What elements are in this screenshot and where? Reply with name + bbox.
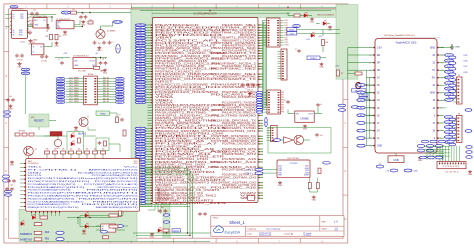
svg-text:ENC_A2: ENC_A2	[103, 82, 109, 85]
svg-text:TML1: TML1	[28, 167, 44, 169]
svg-text:Sheet:: Sheet:	[322, 227, 328, 230]
GND at bottom of NodeMCU mesh	[418, 156, 422, 159]
svg-text:PB6/USART1_TX/CAN2: PB6/USART1_TX/CAN2	[222, 39, 257, 42]
net oval OSC_IN	[113, 21, 123, 24]
svg-text:A: A	[5, 27, 7, 30]
net ovals lower right cluster	[466, 146, 472, 159]
IC U6 right column pin names	[76, 167, 140, 210]
LED D10 mid bottom strip	[85, 223, 89, 228]
svg-text:PD14/FSMC_D0/TIM4_CH3: PD14/FSMC_D0/TIM4_CH3	[211, 177, 257, 179]
ground below capacitors	[17, 62, 21, 65]
svg-text:PF4: PF4	[281, 102, 284, 104]
wire +5V rail top	[131, 6, 336, 8]
svg-text:IO15: IO15	[447, 100, 451, 102]
junction dots rail	[47, 24, 48, 25]
net name labels on header J2 wires	[285, 20, 289, 46]
svg-text:GND: GND	[310, 22, 315, 24]
svg-text:B2: B2	[113, 229, 115, 231]
wire into LP2985	[287, 110, 289, 114]
svg-text:GND: GND	[328, 30, 333, 32]
svg-text:C: C	[5, 122, 7, 125]
wires U6 right to bottom bus	[140, 198, 190, 207]
svg-text:Reset(PC6)(PCINT14): Reset(PC6)(PCINT14)	[81, 177, 139, 180]
ferrite bead FB1 outside frame	[356, 82, 361, 88]
resistor R2 vertical	[50, 34, 53, 40]
svg-text:RC4(PCINT18/AIN5C): RC4(PCINT18/AIN5C)	[28, 177, 82, 180]
opto isolator U7 body	[101, 224, 116, 232]
resistor R25 right of U10	[318, 168, 321, 174]
frame column ticks bottom	[25, 238, 323, 243]
wires fanning from U5 right to headers	[444, 63, 447, 108]
IC U1B inner text	[34, 19, 46, 27]
wires from U3 bottom to bottom bus	[148, 203, 161, 215]
IC U10 left pin text	[278, 166, 283, 177]
svg-text:ENC_A8: ENC_A8	[103, 97, 109, 100]
svg-text:GND: GND	[82, 234, 87, 236]
svg-text:PD2(R3/AN5C)(INT2): PD2(R3/AN5C)(INT2)	[28, 186, 86, 189]
svg-text:PB4(MISO)(PCINT4): PB4(MISO)(PCINT4)	[79, 198, 139, 200]
svg-text:PG4: PG4	[285, 30, 288, 32]
ground below R23	[312, 196, 316, 199]
svg-text:ENC_A7: ENC_A7	[103, 95, 109, 98]
IC U2 inner text	[33, 47, 44, 54]
net ovals left of U5 lower	[357, 122, 365, 148]
net label box PWM below XP0H	[96, 111, 110, 115]
svg-text:MOT_PWM3: MOT_PWM3	[69, 85, 78, 87]
svg-text:PD6/USART2_RX/FSMC: PD6/USART2_RX/FSMC	[222, 76, 256, 79]
svg-text:PD6(OC0A/AN2)(PCINT6): PD6(OC0A/AN2)(PCINT6)	[28, 197, 76, 200]
net oval top left of U1	[10, 6, 18, 9]
IC U1 CH340G body	[12, 10, 28, 38]
inductor L1	[94, 66, 100, 69]
svg-text:SW1: SW1	[31, 117, 35, 119]
wire bus between U3 and headers	[263, 20, 267, 112]
net ovals above header P4	[420, 156, 443, 159]
svg-text:4R7 4R7: 4R7 4R7	[19, 131, 26, 133]
svg-text:PA9/USART1_TX/TIM1: PA9/USART1_TX/TIM1	[222, 127, 257, 130]
svg-text:C?: C?	[284, 100, 286, 102]
svg-text:PC2/ADC123_IN12/SPI2: PC2/ADC123_IN12/SPI2	[155, 88, 206, 91]
svg-text:S0: S0	[360, 85, 362, 87]
svg-text:GND: GND	[312, 200, 317, 202]
svg-text:PB4(T1/SCK)(PCINT5): PB4(T1/SCK)(PCINT5)	[90, 196, 139, 198]
LED D5 bottom-left	[21, 220, 25, 225]
svg-text:IC?: IC?	[243, 198, 246, 200]
caps between U1B and U2	[26, 31, 32, 35]
svg-text:LED1 LED-5MM_R: LED1 LED-5MM_R	[317, 15, 335, 17]
diode bridge green box	[67, 132, 84, 154]
svg-text:PB4(PUR)(INT0): PB4(PUR)(INT0)	[87, 190, 139, 192]
net ovals right of U5 second column	[449, 56, 456, 98]
net ovals far right of P2	[465, 109, 472, 133]
svg-text:3: 3	[109, 6, 111, 9]
svg-text:+5V: +5V	[335, 66, 339, 68]
svg-text:PF13/FSMC_A7: PF13/FSMC_A7	[155, 143, 220, 146]
svg-text:MOT_PWM6: MOT_PWM6	[69, 93, 78, 95]
svg-text:SN: SN	[377, 70, 381, 72]
svg-text:104: 104	[9, 96, 12, 98]
svg-text:GND: GND	[430, 93, 435, 95]
frame row ticks right	[343, 27, 348, 221]
net oval PWR	[293, 25, 301, 28]
svg-text:GND: GND	[8, 109, 13, 111]
wire stub texts top-left U1	[30, 16, 46, 27]
svg-text:10K: 10K	[86, 148, 89, 150]
svg-text:PG8: PG8	[285, 40, 288, 42]
svg-text:PA13/JTMS-SWDIO: PA13/JTMS-SWDIO	[211, 114, 256, 117]
svg-text:SUSP: SUSP	[304, 175, 310, 177]
svg-text:PC11/UART4_RX/SDIO: PC11/UART4_RX/SDIO	[211, 104, 256, 107]
IC U1 inner pin text bottom	[13, 30, 24, 37]
svg-text:9T-CH(TML1): 9T-CH(TML1)	[28, 169, 78, 171]
svg-text:C7: C7	[58, 59, 60, 61]
svg-text:ENC_A3: ENC_A3	[103, 84, 109, 87]
svg-text:MOT_PWM4: MOT_PWM4	[69, 88, 78, 90]
svg-text:PG6: PG6	[285, 35, 288, 37]
net ovals right of U5 lower group	[444, 116, 452, 144]
bottom center cluster diode	[158, 227, 162, 232]
svg-text:S4: S4	[360, 115, 362, 117]
svg-text:AREF/ADC6(PCINT22): AREF/ADC6(PCINT22)	[89, 168, 139, 171]
ground below USB connector	[63, 31, 67, 34]
svg-text:0 1 2 3 4 5 6 7 8 9: 0 1 2 3 4 5 6 7 8 9	[443, 166, 460, 168]
svg-text:GND: GND	[418, 160, 423, 162]
svg-text:PG12/FSMC_NE4: PG12/FSMC_NE4	[211, 58, 258, 60]
svg-text:MIBTX0: MIBTX0	[20, 239, 33, 242]
wires along top green band	[140, 7, 331, 14]
USB connector on U5 bottom	[388, 156, 404, 163]
junction dots bottom bus	[187, 232, 188, 233]
svg-text:PB7/USART1_RX/FSMC: PB7/USART1_RX/FSMC	[211, 37, 257, 40]
svg-text:REV:: REV:	[322, 221, 327, 223]
svg-text:+12V: +12V	[63, 53, 68, 55]
transistor Q1	[24, 146, 34, 156]
svg-text:+5V: +5V	[95, 53, 99, 55]
svg-text:PD5/USART2_TX: PD5/USART2_TX	[211, 78, 257, 81]
svg-text:GND: GND	[455, 47, 460, 49]
ground below R1	[55, 42, 59, 45]
svg-text:Company:: Company:	[247, 228, 257, 230]
svg-text:TXD0: TXD0	[289, 33, 294, 35]
opto isolator U7 pin text	[102, 225, 115, 231]
pin header XP0H 2x10 body	[84, 74, 98, 105]
svg-text:PG4/FSMC_A14: PG4/FSMC_A14	[211, 161, 258, 164]
wires bottom strip	[67, 217, 128, 230]
svg-text:MIBRX0: MIBRX0	[20, 233, 33, 236]
wires left of U1	[5, 14, 10, 16]
svg-text:MOT_PWM2: MOT_PWM2	[69, 83, 78, 85]
svg-text:GND: GND	[248, 96, 253, 98]
title block divider lines	[211, 216, 344, 237]
net label box PAM1	[359, 93, 368, 96]
svg-text:RXD0: RXD0	[289, 29, 294, 31]
svg-text:GND: GND	[468, 174, 473, 176]
svg-text:PC13/RTC_AF1: PC13/RTC_AF1	[155, 39, 222, 42]
svg-text:VBAT: VBAT	[155, 37, 175, 40]
svg-text:BZ1: BZ1	[56, 148, 59, 150]
resistor R26 outside frame	[355, 72, 362, 75]
svg-text:VOUT: VOUT	[90, 61, 96, 63]
capacitor C20 col right	[297, 49, 301, 53]
svg-text:104: 104	[10, 185, 13, 187]
svg-text:PG0: PG0	[285, 20, 288, 22]
IC U6 top-left corner labels	[28, 161, 39, 165]
svg-text:PE3/TRACED0: PE3/TRACED0	[155, 26, 215, 29]
MCU U3 left-side pins with net ovals	[135, 24, 230, 205]
svg-text:104: 104	[33, 10, 36, 12]
svg-text:10K: 10K	[78, 148, 81, 150]
svg-text:S1: S1	[360, 92, 362, 94]
green region right strip outside frame	[336, 5, 358, 80]
net label box PAM2	[359, 97, 368, 100]
svg-text:D+: D+	[13, 18, 15, 20]
svg-text:C: C	[345, 122, 347, 125]
svg-text:PG13/USART6_CTS: PG13/USART6_CTS	[222, 55, 257, 58]
svg-text:INT2: INT2	[134, 163, 138, 165]
svg-text:OSC_IN: OSC_IN	[114, 22, 121, 24]
svg-text:CTRL1: CTRL1	[245, 169, 252, 171]
svg-text:GND: GND	[430, 47, 435, 49]
svg-text:PD10/FSMC_D15: PD10/FSMC_D15	[155, 203, 229, 205]
svg-text:PC10/UART4_TX/SDIO: PC10/UART4_TX/SDIO	[222, 107, 256, 110]
svg-text:PF8: PF8	[281, 112, 284, 114]
LED D6 power	[304, 12, 308, 17]
IC U6 left edge pins	[20, 163, 26, 207]
resistor R20 series	[294, 14, 300, 17]
net oval right of U10	[323, 162, 331, 165]
title block outline	[211, 216, 344, 237]
svg-text:D: D	[5, 170, 7, 173]
svg-text:MOT_PWM5: MOT_PWM5	[69, 90, 78, 92]
LED D7	[323, 20, 327, 25]
svg-text:GND: GND	[103, 73, 108, 75]
net ovals above reset box	[21, 68, 29, 75]
transistor Q2 circle	[294, 135, 304, 145]
svg-text:PC5T(ADC4/SDA)(PCINT12): PC5T(ADC4/SDA)(PCINT12)	[92, 174, 139, 177]
diode D2 D3 in box	[71, 132, 81, 145]
svg-text:PA7/SPI1_MOSI/TIM8: PA7/SPI1_MOSI/TIM8	[155, 122, 201, 125]
svg-text:1: 1	[25, 6, 27, 9]
svg-text:+5V: +5V	[306, 39, 310, 41]
ground below crystal caps	[97, 46, 101, 49]
resistor values beside U6 top resistors	[46, 148, 105, 150]
regulator U8 LP2985 body	[295, 111, 314, 122]
svg-text:PC12/UART5_TX/SDIO: PC12/UART5_TX/SDIO	[222, 101, 256, 104]
svg-text:CTRL2: CTRL2	[245, 173, 252, 175]
net ovals left of U6	[2, 175, 11, 196]
svg-text:VCC GND: VCC GND	[78, 71, 87, 73]
svg-text:GND: GND	[54, 46, 59, 48]
svg-text:GND: GND	[10, 165, 15, 167]
svg-text:S2: S2	[360, 100, 362, 102]
green region left strip	[131, 9, 152, 207]
wires motor driver area	[35, 135, 67, 137]
svg-text:PB10/I2C2_SCL/USART3: PB10/I2C2_SCL/USART3	[155, 179, 227, 182]
svg-text:U1 CH340G: U1 CH340G	[12, 9, 24, 11]
svg-text:ENC_A6: ENC_A6	[103, 92, 109, 95]
svg-text:10K: 10K	[102, 148, 105, 150]
svg-text:PF14/FSMC_A8: PF14/FSMC_A8	[155, 145, 203, 148]
svg-text:TX: TX	[432, 70, 435, 72]
pin header J2 2x12 boot/program	[263, 18, 284, 47]
green region top band	[131, 9, 349, 17]
svg-text:GND: GND	[81, 24, 86, 26]
net label box PRSET	[307, 56, 320, 60]
bottom center blue label	[172, 229, 181, 232]
svg-text:PA15/JTDI/TIM2_CH1: PA15/JTDI/TIM2_CH1	[211, 109, 257, 112]
svg-text:PF7: PF7	[281, 109, 284, 111]
wires below U10	[309, 178, 311, 183]
svg-text:22p: 22p	[98, 43, 101, 45]
net label box SRC05B4	[352, 89, 367, 92]
left-edge cluster ground	[9, 105, 13, 108]
svg-text:10K: 10K	[46, 148, 49, 150]
svg-text:E: E	[345, 218, 347, 221]
svg-text:104: 104	[161, 207, 164, 209]
svg-text:GND: GND	[28, 172, 44, 174]
svg-text:PE2/TRACECK: PE2/TRACECK	[155, 24, 200, 27]
capacitors near green strip bottom	[158, 207, 167, 213]
net oval CMD below left	[404, 169, 412, 172]
svg-text:PF3: PF3	[281, 99, 284, 101]
IC U1 inner pin text top	[13, 14, 25, 20]
net ovals near bottom of green strip	[163, 214, 169, 223]
svg-text:PC6/TIM8_CH1/SDIO_D6: PC6/TIM8_CH1/SDIO_D6	[222, 144, 257, 146]
svg-text:VDDA: VDDA	[155, 101, 174, 104]
svg-text:B+: B+	[44, 20, 46, 22]
net oval PWM labels near J4	[265, 117, 267, 126]
net label boxes RXD0 TXD0	[287, 28, 297, 31]
svg-text:PA11/USB_DM/CAN1_RX: PA11/USB_DM/CAN1_RX	[222, 122, 257, 125]
USB connector J1 pins text	[57, 22, 61, 29]
svg-text:IO27: IO27	[464, 66, 468, 68]
svg-text:GND: GND	[17, 67, 22, 69]
ground below transistor Q3	[74, 126, 78, 129]
svg-text:U10 CP2102: U10 CP2102	[287, 158, 300, 160]
svg-text:104: 104	[26, 31, 29, 33]
resistor R1 vertical	[55, 34, 58, 40]
svg-text:USB5V: USB5V	[11, 7, 17, 9]
extra top-left wires	[74, 20, 83, 27]
svg-text:10u: 10u	[320, 135, 323, 137]
svg-text:PA10/USART1_RX/TIM1: PA10/USART1_RX/TIM1	[211, 125, 257, 128]
svg-text:ENC_A4: ENC_A4	[103, 87, 109, 90]
svg-text:PF12/FSMC_A6: PF12/FSMC_A6	[155, 140, 206, 143]
resistor R27 and cap below XP0H	[116, 115, 124, 123]
net ovals outside frame right	[338, 104, 358, 111]
IC U1B auxiliary box right of U1	[33, 18, 47, 29]
svg-text:PB4T(UR)(INT4): PB4T(UR)(INT4)	[82, 204, 139, 206]
wires and net names left of XP0H	[56, 77, 84, 104]
wires regulator connections	[61, 58, 63, 60]
capacitors left of U6	[7, 179, 16, 187]
svg-text:PC1T(SRT)(A/PCL3-LAC3): PC1T(SRT)(A/PCL3-LAC3)	[84, 183, 139, 186]
svg-text:10K: 10K	[62, 148, 65, 150]
wires from U5 to P4	[427, 150, 444, 160]
net oval VBUS top	[61, 11, 70, 14]
svg-text:PG7/USART6_CK: PG7/USART6_CK	[211, 151, 257, 154]
wire RXD0 TXD0 right	[297, 28, 340, 30]
IC U1 side pins	[10, 14, 29, 33]
svg-text:GND: GND	[33, 39, 38, 41]
svg-text:PE4/TRACED1/SAI1: PE4/TRACED1/SAI1	[155, 29, 227, 32]
capacitors C10 C11 row	[40, 55, 48, 63]
svg-text:R1: R1	[59, 36, 61, 38]
IC U10 right pin text	[304, 166, 310, 177]
wire bus right of U6 down	[140, 168, 193, 238]
svg-text:PD3(OC2B/AN4)(PCINT3): PD3(OC2B/AN4)(PCINT3)	[28, 189, 72, 192]
module U5 right pins	[430, 47, 444, 148]
svg-text:C?104: C?104	[20, 42, 25, 44]
wire comparator	[281, 139, 284, 141]
svg-text:GND: GND	[319, 67, 324, 69]
svg-text:PC1(TC/TXA-AN6M4A)(NCT5/AD7): PC1(TC/TXA-AN6M4A)(NCT5/AD7)	[28, 200, 85, 203]
wire to bottom IC	[28, 156, 30, 159]
svg-text:MOT_PWM7: MOT_PWM7	[69, 96, 78, 98]
small IC X2 left of U10	[248, 196, 255, 201]
pin header P2 1x8 right	[454, 75, 463, 104]
ground mid bottom strip	[82, 230, 86, 233]
comparator U9 triangle	[284, 137, 294, 143]
small resistor pair above crystal	[88, 19, 93, 24]
module U5 left pins	[366, 47, 382, 148]
svg-text:VDDA: VDDA	[138, 101, 144, 104]
ground below regulator output caps	[103, 69, 107, 72]
svg-text:ENC_A5: ENC_A5	[103, 89, 109, 92]
svg-text:PC3/ADC123_IN13/SPI2: PC3/ADC123_IN13/SPI2	[155, 91, 220, 94]
svg-text:E: E	[5, 218, 7, 221]
wire rail across top-left	[27, 24, 48, 26]
svg-text:GND: GND	[97, 50, 102, 52]
wires top right power	[287, 12, 289, 16]
buzzer circuit wires	[57, 136, 59, 139]
svg-text:VCAP2: VCAP2	[240, 192, 258, 195]
svg-text:PG6/FSMC_INT2: PG6/FSMC_INT2	[222, 154, 257, 156]
svg-text:PA1/USART2_RTS/ADC123: PA1/USART2_RTS/ADC123	[155, 107, 210, 110]
capacitors right of U1 top	[30, 10, 39, 16]
capacitor bank below MCU	[241, 83, 260, 92]
svg-text:PB0/ADC12_IN8/TIM3_CH3: PB0/ADC12_IN8/TIM3_CH3	[155, 130, 211, 133]
ovals left edge mid	[4, 111, 11, 117]
svg-text:D.Lanh: D.Lanh	[304, 233, 312, 236]
svg-text:PC5/ADC12_IN15: PC5/ADC12_IN15	[155, 127, 229, 130]
capacitor row above USB	[46, 26, 50, 33]
vertical wire bundle left of NodeMCU	[366, 70, 370, 146]
svg-text:LP2985: LP2985	[300, 118, 309, 121]
net ovals left of header J4	[256, 91, 262, 113]
svg-text:1 2 3 4 5 6 7 8 9 10: 1 2 3 4 5 6 7 8 9 10	[445, 171, 459, 173]
svg-text:SP: SP	[377, 63, 381, 65]
svg-text:PB1/ADC12_IN9/TIM3_CH4: PB1/ADC12_IN9/TIM3_CH4	[155, 132, 225, 135]
svg-text:BLA01: BLA01	[79, 131, 87, 135]
svg-text:NodeMCU 32S: NodeMCU 32S	[396, 41, 417, 45]
wires NodeMCU right fan	[443, 55, 446, 94]
svg-text:EN: EN	[377, 55, 381, 57]
net ovals right of opto	[101, 225, 124, 233]
svg-text:IO25: IO25	[464, 55, 468, 57]
resistor R18 pull-up	[119, 211, 122, 217]
pin header P4 1x10 horizontal	[437, 162, 466, 169]
svg-text:C8: C8	[102, 59, 104, 61]
net ovals above header P4	[417, 145, 443, 152]
svg-text:PG7: PG7	[285, 37, 288, 39]
MCU U3 STM32F407ZGT6 body	[153, 18, 259, 203]
net name labels on header J4 wires	[281, 92, 284, 114]
wire bottom horizontal bus	[25, 233, 252, 241]
MCU U3 bottom edge pin labels	[157, 189, 169, 203]
svg-text:ENC9: ENC9	[118, 102, 122, 104]
svg-text:PWM: PWM	[100, 113, 106, 115]
